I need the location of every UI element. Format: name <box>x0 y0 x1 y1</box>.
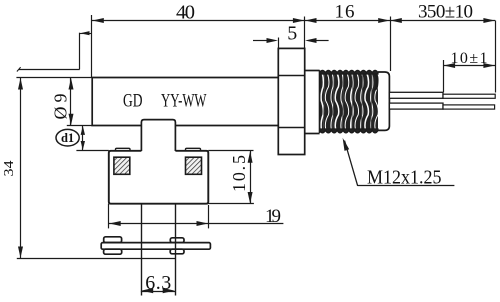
extension line right end of dim 350 at x=495 <box>495 21 497 93</box>
right end cap <box>378 72 389 130</box>
dimension 5 right arrow <box>316 40 329 42</box>
lower stem left line <box>141 204 143 296</box>
lower wire insulated section <box>389 103 443 109</box>
float left top tab <box>116 148 131 151</box>
svg-text:5: 5 <box>287 22 297 44</box>
float top left extension line <box>76 150 108 152</box>
svg-text:GD: GD <box>123 92 143 112</box>
svg-text:6.3: 6.3 <box>145 272 171 294</box>
bottom datum line <box>17 258 175 260</box>
dimension diameter-9 line <box>70 78 72 126</box>
svg-text:34: 34 <box>1 160 16 176</box>
svg-text:40: 40 <box>176 2 195 24</box>
left clip upper part <box>104 237 122 243</box>
extension line left of dim 10±1 at x=443 <box>443 60 445 92</box>
right clip lower part <box>170 249 184 254</box>
dimension 19 line <box>109 223 284 225</box>
M12x1.25 underline <box>358 185 455 187</box>
tick at left end of step extension line <box>17 67 21 71</box>
collar flange rectangle <box>278 48 304 154</box>
step small dimension arrow <box>80 33 92 35</box>
thread section M12 texture <box>320 72 378 132</box>
svg-text:YY-WW: YY-WW <box>161 92 207 112</box>
dimension d1 line <box>82 126 84 150</box>
extension line shared by dim 40 and dim 16 at x=305 <box>304 17 306 49</box>
float body rectangle <box>109 151 209 204</box>
float bottom right extension line for dim 19 <box>208 205 210 228</box>
dimension 16 line <box>305 20 390 22</box>
step extension line at y=69 <box>19 69 80 71</box>
main body outline <box>92 78 278 126</box>
float right top tab <box>186 148 201 151</box>
dimension 34 line <box>20 78 22 258</box>
float top right extension line <box>208 150 253 152</box>
extension line shared by dim 16 and dim 350 at x=390 <box>390 17 392 72</box>
svg-text:d1: d1 <box>61 131 74 145</box>
upper wire insulated section <box>389 92 443 98</box>
svg-text:350±10: 350±10 <box>418 2 473 23</box>
extension line left of dim 5 at x=278 <box>278 38 280 51</box>
collar internal line upper <box>278 75 304 77</box>
svg-text:19: 19 <box>265 206 281 227</box>
shank bottom line <box>305 133 320 135</box>
extension line left of dim 40 at x=92 <box>91 15 93 77</box>
body top extension line <box>16 77 92 79</box>
float right hatched magnet <box>186 157 202 174</box>
float bottom right extension line <box>208 203 254 205</box>
lower stem right line <box>175 204 177 296</box>
step vertical extension line at x=80 <box>79 33 81 70</box>
body bottom extension line <box>67 125 92 127</box>
dimension 40 line <box>92 20 305 22</box>
svg-text:16: 16 <box>335 2 355 23</box>
float bottom left extension line for dim 19 <box>108 204 110 229</box>
dimension 10±1 line <box>443 65 495 67</box>
dimension 10.5 line <box>250 151 252 204</box>
svg-text:Ø9: Ø9 <box>51 94 71 120</box>
lower wire bare conductor <box>443 105 495 109</box>
svg-text:M12x1.25: M12x1.25 <box>367 166 442 188</box>
boss stem between body and float <box>141 120 175 151</box>
dimension 350 line <box>390 20 495 22</box>
shank top line <box>305 70 320 72</box>
upper wire bare conductor <box>443 94 495 98</box>
svg-text:10.5: 10.5 <box>229 155 249 192</box>
M12x1.25 leader line <box>345 141 358 186</box>
right clip upper part <box>170 238 184 243</box>
svg-text:10±1: 10±1 <box>451 50 488 67</box>
label d1 ellipse <box>56 129 79 146</box>
collar internal line lower <box>278 127 304 129</box>
float left hatched magnet <box>114 157 130 174</box>
dimension 6.3 line <box>141 291 175 293</box>
dimension 5 left arrow <box>253 40 268 42</box>
left clip lower part <box>104 249 122 254</box>
mounting bar <box>101 243 210 250</box>
